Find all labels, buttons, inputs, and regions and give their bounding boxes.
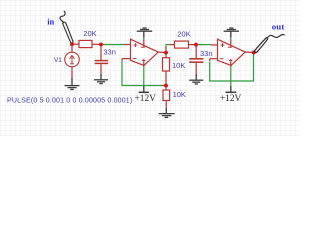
op-amp U1 bbox=[122, 39, 166, 65]
ground (below C2) bbox=[189, 74, 203, 84]
input hook wire bbox=[60, 11, 73, 43]
svg-text:33n: 33n bbox=[103, 48, 116, 57]
ground (below V1) bbox=[65, 78, 80, 89]
svg-text:in: in bbox=[47, 16, 54, 26]
wire (node D to op-amp2 +input) bbox=[198, 44, 212, 46]
wire (node B to op-amp1 +input) bbox=[103, 44, 125, 46]
node E junction dot (divider midpoint) bbox=[164, 84, 168, 88]
wire (op-amp2 feedback loop) bbox=[210, 55, 254, 82]
op-amp U2 bbox=[210, 39, 254, 65]
svg-text:10K: 10K bbox=[173, 90, 186, 99]
svg-text:V1: V1 bbox=[54, 57, 62, 64]
ground (op-amp U1 V- pin, above) bbox=[137, 28, 152, 40]
svg-text:out: out bbox=[272, 22, 285, 32]
wire (output up to R2) bbox=[165, 46, 167, 53]
ground (below R4) bbox=[159, 108, 175, 117]
node out junction dot (op-amp2 output) bbox=[252, 51, 256, 55]
node C junction dot (op-amp1 output) bbox=[164, 51, 168, 55]
node B junction dot (R1/C1/opamp1 +) bbox=[99, 42, 103, 46]
node A junction dot (in/V1/R1) bbox=[70, 42, 74, 46]
svg-text:33n: 33n bbox=[200, 49, 213, 58]
svg-text:20K: 20K bbox=[83, 29, 96, 38]
output hook wire bbox=[255, 34, 285, 52]
node D junction dot (R2/C2/opamp2 +) bbox=[194, 43, 198, 47]
svg-text:20K: 20K bbox=[177, 30, 190, 39]
svg-text:+12V: +12V bbox=[220, 94, 242, 104]
svg-text:10K: 10K bbox=[172, 61, 185, 70]
op-amp U1 +/- markers bbox=[133, 43, 146, 62]
wire (feedback from divider to op-amp1 -input) bbox=[122, 61, 164, 86]
+12V rail (op-amp U1 V+ pin, below) bbox=[135, 62, 157, 104]
ground (below C1) bbox=[94, 74, 108, 84]
ground (op-amp U2 V- pin, above) bbox=[224, 28, 239, 40]
op-amp U2 +/- markers bbox=[220, 43, 233, 62]
+12V rail (op-amp U2 V+ pin, below) bbox=[220, 62, 242, 104]
svg-text:+12V: +12V bbox=[135, 94, 157, 104]
svg-text:PULSE(0 5 0.001 0 0 0.00005 0.: PULSE(0 5 0.001 0 0 0.00005 0.0001) bbox=[7, 97, 132, 104]
